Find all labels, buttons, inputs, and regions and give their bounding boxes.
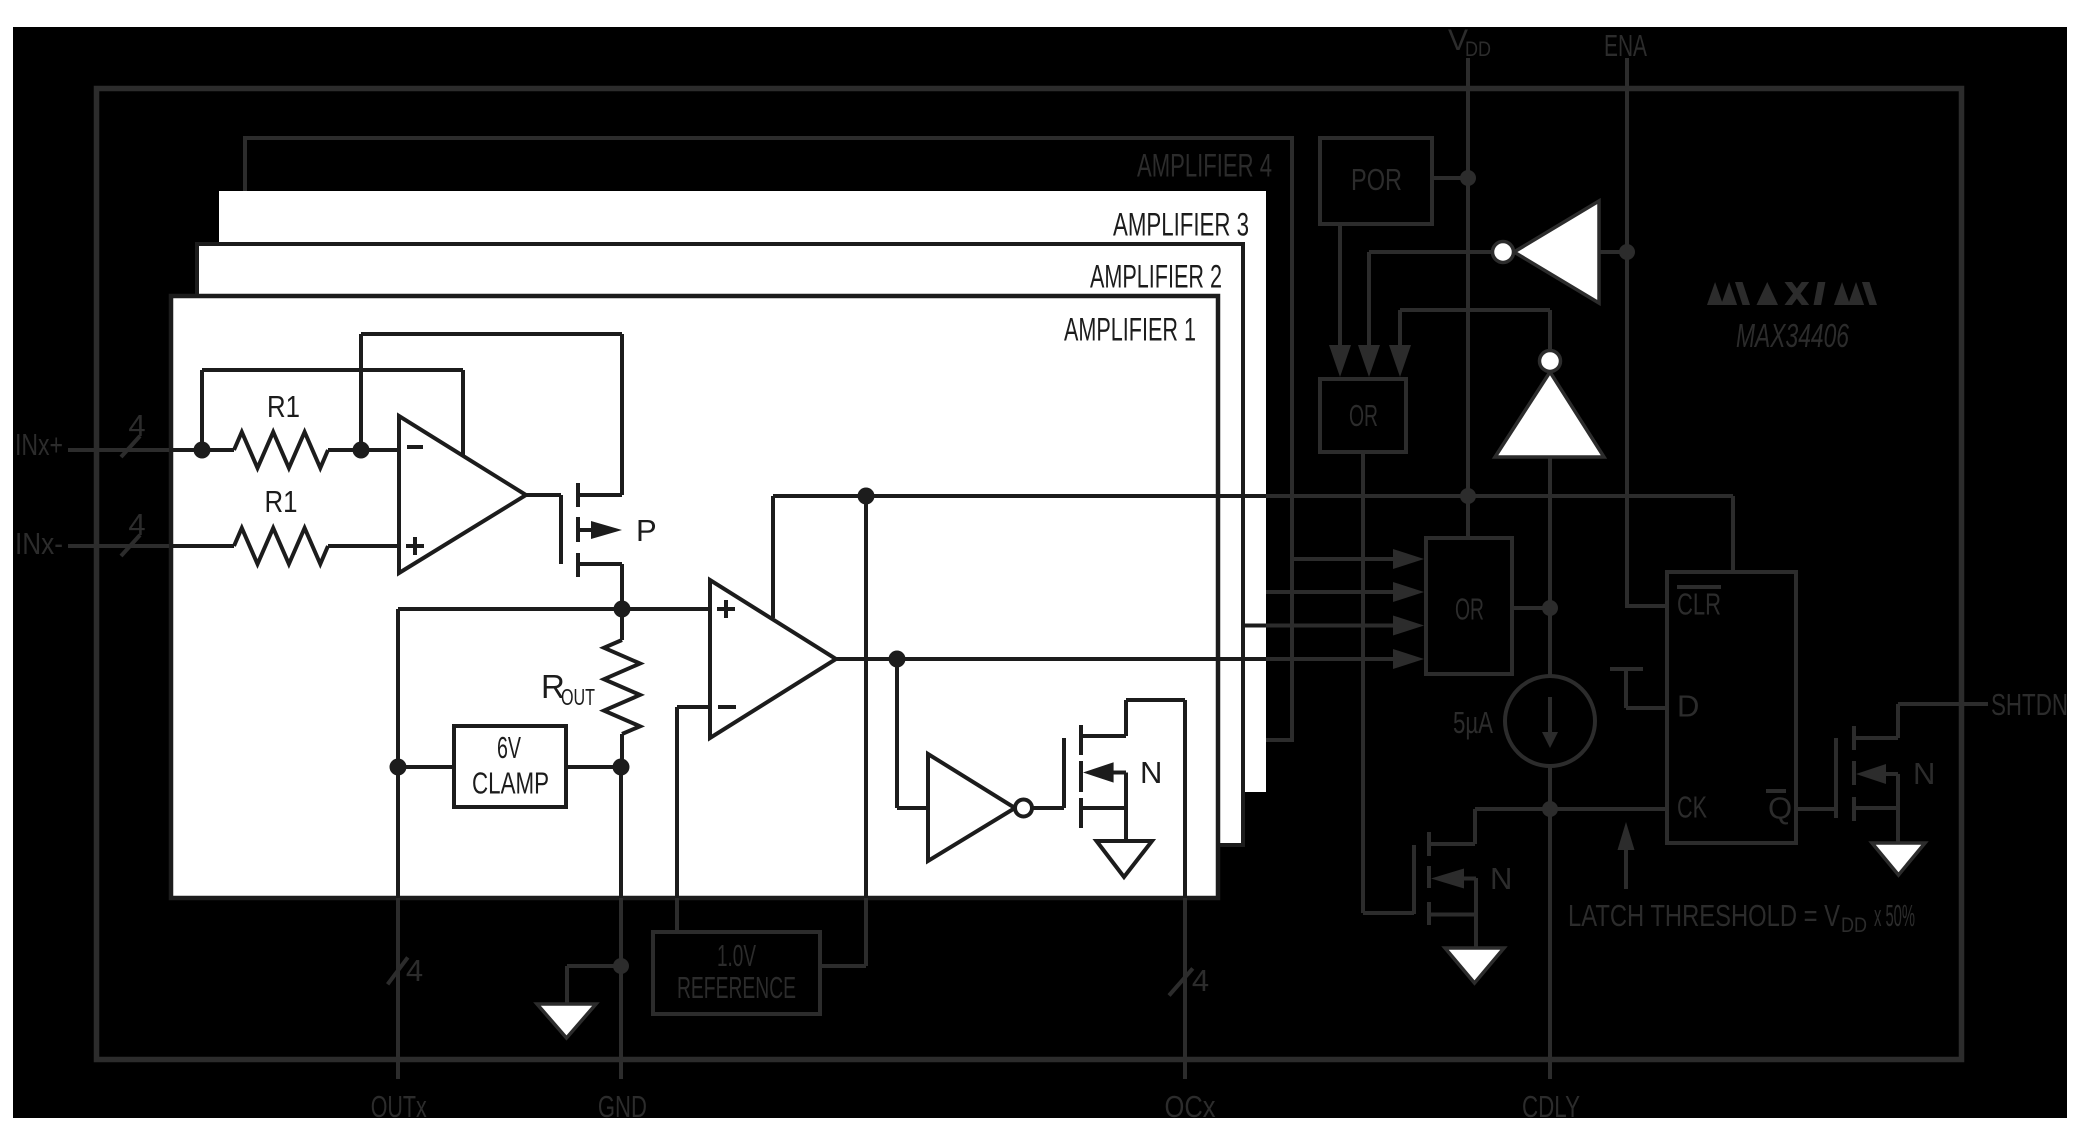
- svg-text:CK: CK: [1677, 790, 1707, 825]
- svg-text:OR: OR: [1349, 398, 1378, 433]
- svg-text:N: N: [1490, 861, 1512, 896]
- svg-text:N: N: [1140, 755, 1162, 790]
- svg-text:CLR: CLR: [1677, 587, 1721, 622]
- svg-text:R1: R1: [265, 484, 298, 519]
- svg-text:ENA: ENA: [1604, 28, 1647, 63]
- svg-text:GND: GND: [598, 1089, 647, 1124]
- svg-text:POR: POR: [1351, 162, 1402, 197]
- svg-text:AMPLIFIER 4: AMPLIFIER 4: [1137, 148, 1272, 184]
- svg-text:DD: DD: [1465, 38, 1491, 61]
- svg-text:1.0V: 1.0V: [717, 938, 756, 973]
- svg-text:SHTDN: SHTDN: [1991, 687, 2068, 722]
- svg-text:5µA: 5µA: [1453, 705, 1493, 740]
- svg-text:INx+: INx+: [15, 427, 63, 462]
- svg-text:AMPLIFIER 1: AMPLIFIER 1: [1064, 312, 1196, 348]
- svg-text:AMPLIFIER 3: AMPLIFIER 3: [1113, 207, 1249, 243]
- svg-text:AMPLIFIER 2: AMPLIFIER 2: [1090, 259, 1222, 295]
- svg-text:DD: DD: [1841, 914, 1867, 937]
- svg-text:OR: OR: [1455, 592, 1484, 627]
- svg-text:CDLY: CDLY: [1522, 1089, 1580, 1124]
- svg-text:MAX34406: MAX34406: [1736, 317, 1849, 354]
- svg-text:6V: 6V: [497, 730, 521, 765]
- svg-text:OUTx: OUTx: [371, 1089, 427, 1124]
- svg-text:INx-: INx-: [15, 526, 63, 561]
- svg-text:4: 4: [128, 507, 145, 542]
- svg-text:D: D: [1677, 689, 1699, 724]
- svg-text:OUT: OUT: [561, 684, 595, 710]
- svg-text:x 50%: x 50%: [1874, 898, 1915, 933]
- svg-text:LATCH THRESHOLD = V: LATCH THRESHOLD = V: [1568, 898, 1840, 933]
- svg-text:N: N: [1913, 756, 1935, 791]
- svg-text:Q: Q: [1768, 791, 1792, 826]
- svg-text:REFERENCE: REFERENCE: [677, 970, 796, 1005]
- svg-text:P: P: [636, 513, 657, 548]
- svg-text:CLAMP: CLAMP: [472, 766, 549, 801]
- svg-text:4: 4: [406, 953, 423, 988]
- svg-text:4: 4: [1192, 963, 1209, 998]
- svg-text:4: 4: [128, 408, 145, 443]
- svg-text:OCx: OCx: [1165, 1089, 1216, 1124]
- svg-text:R1: R1: [267, 389, 300, 424]
